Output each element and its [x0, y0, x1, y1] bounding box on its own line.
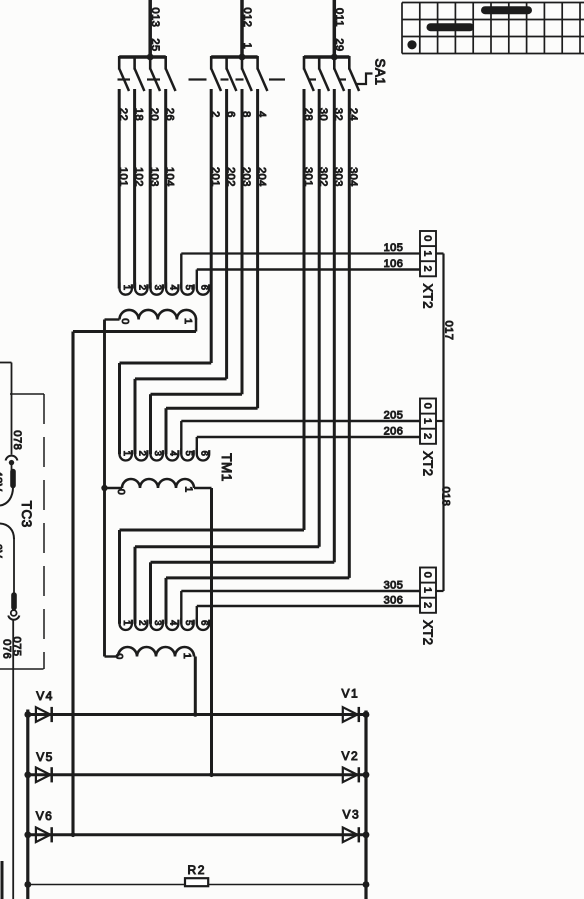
svg-text:5: 5: [183, 620, 194, 626]
svg-text:2: 2: [136, 620, 147, 626]
svg-text:2: 2: [421, 433, 433, 439]
svg-text:TM1: TM1: [219, 453, 234, 482]
svg-text:0: 0: [119, 318, 131, 324]
svg-text:1: 1: [182, 318, 194, 324]
svg-text:R2: R2: [188, 863, 207, 877]
svg-text:5: 5: [183, 451, 194, 457]
svg-text:0: 0: [421, 572, 433, 578]
svg-text:1: 1: [121, 620, 132, 626]
svg-text:48V: 48V: [0, 470, 4, 491]
svg-text:206: 206: [384, 426, 404, 438]
svg-text:017: 017: [443, 321, 455, 341]
svg-text:2: 2: [136, 285, 147, 291]
svg-text:XT2: XT2: [420, 284, 435, 309]
svg-text:1: 1: [421, 418, 433, 424]
svg-text:011: 011: [333, 8, 345, 27]
svg-text:305: 305: [384, 579, 404, 591]
svg-text:V1: V1: [342, 687, 359, 701]
svg-text:4: 4: [167, 285, 178, 291]
svg-text:V3: V3: [343, 808, 360, 822]
svg-text:6: 6: [198, 285, 209, 291]
svg-text:29: 29: [333, 38, 345, 51]
svg-text:0: 0: [113, 653, 125, 659]
svg-text:2: 2: [421, 266, 433, 272]
svg-text:1: 1: [421, 250, 433, 256]
svg-text:XT2: XT2: [420, 451, 435, 476]
svg-text:1: 1: [121, 285, 132, 291]
svg-text:5: 5: [183, 285, 194, 291]
svg-text:106: 106: [384, 258, 404, 270]
svg-text:013: 013: [149, 8, 161, 28]
svg-text:0: 0: [115, 489, 127, 495]
svg-text:1: 1: [421, 587, 433, 593]
svg-text:0: 0: [421, 403, 433, 409]
svg-text:V5: V5: [36, 750, 53, 764]
svg-text:105: 105: [384, 242, 404, 254]
svg-text:V4: V4: [36, 689, 53, 703]
svg-text:25: 25: [149, 38, 161, 51]
svg-text:V6: V6: [36, 809, 53, 823]
svg-text:1: 1: [181, 653, 193, 659]
svg-text:V2: V2: [342, 749, 359, 763]
svg-text:1: 1: [241, 43, 253, 50]
svg-text:4: 4: [167, 620, 178, 626]
svg-text:6V: 6V: [0, 544, 3, 559]
svg-text:SA1: SA1: [372, 58, 387, 85]
svg-text:306: 306: [384, 595, 404, 607]
svg-text:4: 4: [167, 451, 178, 457]
svg-text:076: 076: [1, 639, 13, 659]
svg-text:3: 3: [152, 620, 163, 626]
svg-text:TC3: TC3: [19, 501, 34, 528]
svg-text:2: 2: [136, 451, 147, 457]
svg-text:6: 6: [198, 620, 209, 626]
svg-text:6: 6: [198, 451, 209, 457]
svg-text:205: 205: [384, 410, 404, 422]
svg-text:018: 018: [440, 487, 452, 507]
svg-text:XT2: XT2: [420, 620, 435, 645]
svg-text:1: 1: [182, 486, 194, 492]
svg-text:1: 1: [121, 451, 132, 457]
svg-text:3: 3: [152, 451, 163, 457]
svg-text:2: 2: [421, 602, 433, 608]
svg-text:012: 012: [241, 8, 253, 28]
svg-text:078: 078: [11, 430, 23, 450]
svg-text:3: 3: [152, 285, 163, 291]
svg-text:0: 0: [421, 235, 433, 241]
